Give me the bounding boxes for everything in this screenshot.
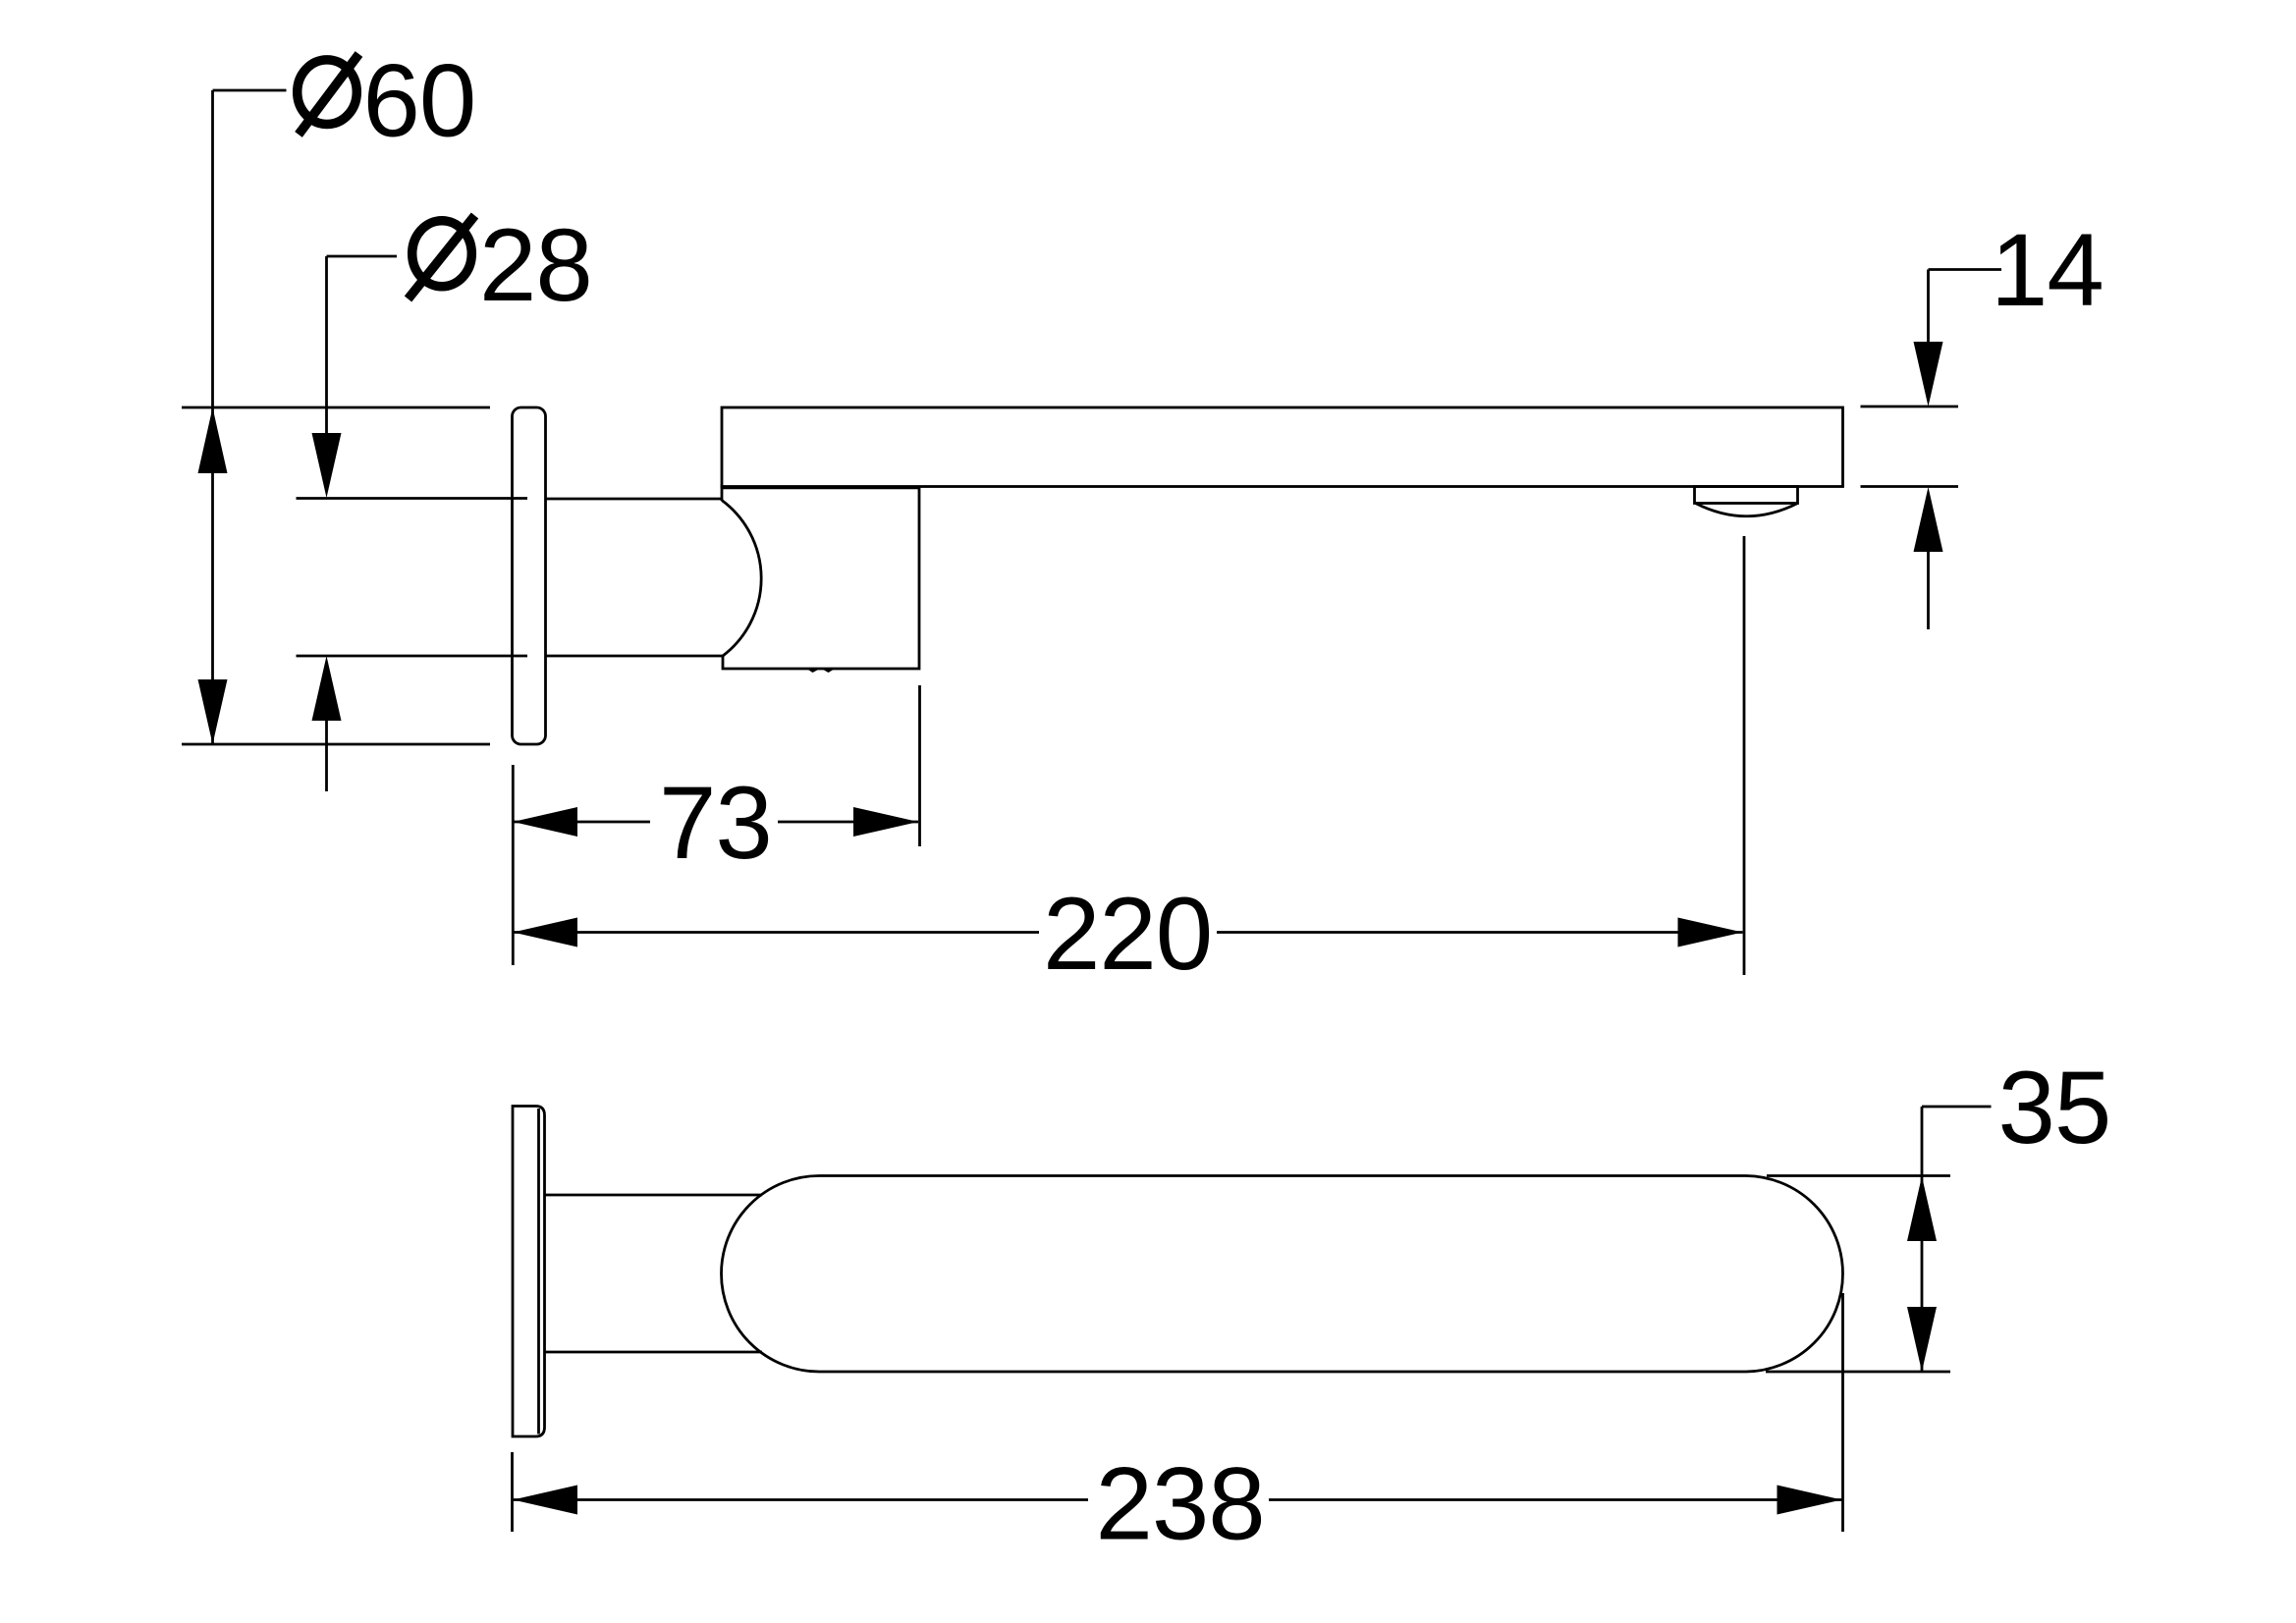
dimension Ø60 lower arrowhead bbox=[198, 679, 228, 744]
aerator dome (side view) bbox=[1696, 504, 1798, 516]
dimension 14 lower arrowhead bbox=[1914, 487, 1943, 552]
wall plate escutcheon (bottom view) bbox=[513, 1107, 545, 1437]
wall plate rim edge line (bottom view) bbox=[537, 1109, 540, 1434]
dimension Ø60 upper arrowhead bbox=[198, 407, 228, 473]
spout body cylinder top edge (side view) bbox=[546, 498, 722, 501]
dimension 14 top extension line bbox=[1861, 406, 1959, 408]
dimension 238 left extension line bbox=[511, 1452, 514, 1532]
dimension 220 left arrowhead bbox=[513, 918, 577, 947]
diameter symbol of label Ø60 bbox=[298, 54, 359, 135]
dimension 35 upper arrowhead bbox=[1907, 1176, 1937, 1241]
spout bar (side view) bbox=[722, 407, 1843, 487]
spout stadium outline (bottom view) bbox=[722, 1176, 1843, 1373]
dimension 73 right arrowhead bbox=[853, 807, 918, 837]
dimension Ø60 leader bbox=[213, 90, 287, 744]
dimension 14 leader bbox=[1929, 270, 2002, 344]
svg-text:28: 28 bbox=[479, 208, 592, 323]
set screw mark under holder block bbox=[806, 669, 837, 674]
cylinder-to-block concave transition arc (side view) bbox=[722, 501, 761, 657]
dimension 35 line bbox=[1921, 1176, 1924, 1372]
dimension 35 leader bbox=[1922, 1107, 1992, 1176]
dimension Ø60 top extension line bbox=[182, 406, 490, 409]
dimension Ø28 lower arrow tail bbox=[325, 721, 328, 791]
dimension 73 right extension line bbox=[918, 685, 921, 846]
svg-text:35: 35 bbox=[1998, 1051, 2111, 1165]
dimension Ø28 top extension line bbox=[297, 497, 528, 500]
spout body cylinder top edge (bottom view) bbox=[545, 1194, 763, 1197]
spout holder block right and bottom edges (side view) bbox=[723, 487, 919, 669]
aerator ring (side view) bbox=[1695, 487, 1798, 504]
dimension 220 line bbox=[513, 931, 1742, 934]
spout holder block top edge (side view) bbox=[723, 486, 919, 489]
dimension Ø28 upper arrowhead bbox=[312, 433, 342, 498]
dimension Ø28 leader bbox=[327, 256, 398, 434]
svg-text:238: 238 bbox=[1096, 1447, 1265, 1562]
spout bar left edge lower segment (side view) bbox=[721, 485, 724, 501]
dimension Ø28 lower arrowhead bbox=[312, 656, 342, 721]
dimension 238 right arrowhead bbox=[1777, 1486, 1842, 1515]
dimension 73 left extension line (shared with 220) bbox=[512, 765, 515, 965]
dimension Ø28 bottom extension line bbox=[297, 655, 528, 658]
svg-text:60: 60 bbox=[363, 44, 476, 159]
dimension 35 lower arrowhead bbox=[1907, 1307, 1937, 1372]
svg-text:220: 220 bbox=[1043, 877, 1212, 992]
dimension 35 top extension line bbox=[1767, 1174, 1950, 1177]
dimension 220 right extension line (aerator centerline) bbox=[1743, 536, 1746, 975]
dimension 14 upper arrowhead bbox=[1914, 342, 1943, 406]
dimension 73 line bbox=[513, 821, 918, 824]
dimension 238 line bbox=[513, 1498, 1841, 1501]
dimension 220 right arrowhead bbox=[1678, 918, 1743, 947]
diameter symbol of label Ø28 bbox=[409, 216, 475, 299]
svg-text:14: 14 bbox=[1991, 213, 2104, 328]
dimension 35 bottom extension line bbox=[1766, 1371, 1950, 1374]
wall plate escutcheon (side view) bbox=[513, 407, 546, 744]
dimension 14 bottom extension line bbox=[1861, 485, 1959, 488]
dimension Ø60 bottom extension line bbox=[182, 743, 490, 746]
spout body cylinder bottom edge (side view) bbox=[546, 655, 723, 658]
dimension 238 left arrowhead bbox=[513, 1486, 577, 1515]
spout body cylinder bottom edge (bottom view) bbox=[545, 1351, 763, 1354]
svg-text:73: 73 bbox=[659, 766, 772, 881]
dimension 14 lower arrow tail bbox=[1927, 552, 1930, 629]
dimension 238 right extension line bbox=[1841, 1293, 1844, 1532]
dimension 73 left arrowhead bbox=[513, 807, 577, 837]
